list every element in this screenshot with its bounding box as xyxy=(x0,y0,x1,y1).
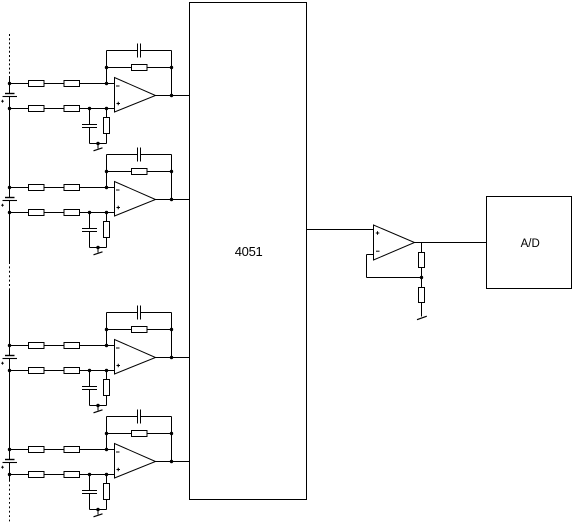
wire xyxy=(107,50,138,52)
wire xyxy=(80,474,115,476)
wire xyxy=(44,370,64,372)
wire xyxy=(44,449,64,451)
wire: mux output to buffer xyxy=(307,229,374,231)
resistor R14 xyxy=(64,106,80,112)
node: U2 inverting input junction xyxy=(105,186,108,189)
resistor R35 (feedback) xyxy=(132,327,148,333)
resistor R61 xyxy=(419,253,425,268)
ground xyxy=(94,514,103,517)
wire: rail into BT3 xyxy=(9,289,11,356)
wire xyxy=(106,51,108,84)
wire xyxy=(80,449,115,451)
wire xyxy=(106,134,108,144)
node: U3 inverting input junction xyxy=(105,344,108,347)
wire xyxy=(90,509,107,511)
wire xyxy=(44,83,64,85)
wire xyxy=(89,371,91,387)
wire xyxy=(171,313,173,358)
wire xyxy=(421,303,423,317)
wire xyxy=(10,83,29,85)
resistor R31 xyxy=(29,343,45,349)
wire xyxy=(107,67,132,69)
node xyxy=(170,66,173,69)
ground xyxy=(94,148,103,151)
wire xyxy=(90,405,107,407)
node xyxy=(88,369,91,372)
wire xyxy=(106,500,108,510)
node: U3 output xyxy=(170,356,173,359)
wire xyxy=(171,51,173,96)
wire: BT3 minus to BT4 plus rail xyxy=(9,359,11,460)
wire xyxy=(147,67,172,69)
op-amp U2 xyxy=(115,182,156,217)
wire xyxy=(90,143,107,145)
op-amp U6 (buffer) xyxy=(374,225,415,260)
resistor R11 xyxy=(29,81,45,87)
wire xyxy=(156,357,190,359)
wire xyxy=(156,199,190,201)
node: U4 inverting input junction xyxy=(105,448,108,451)
wire xyxy=(80,108,115,110)
resistor R42 xyxy=(64,447,80,453)
wire xyxy=(80,345,115,347)
ground xyxy=(94,410,103,413)
mux U5 4051 xyxy=(190,3,307,500)
wire xyxy=(97,406,99,411)
resistor R41 xyxy=(29,447,45,453)
capacitor C32 (filter) xyxy=(82,387,97,390)
capacitor C12 (filter) xyxy=(82,125,97,128)
wire xyxy=(106,109,108,118)
wire xyxy=(89,232,91,248)
wire xyxy=(10,370,29,372)
wire: battery stack mid continuation (dashed) xyxy=(9,262,11,289)
wire xyxy=(89,128,91,144)
svg-text:A/D: A/D xyxy=(521,238,540,250)
wire xyxy=(90,247,107,249)
wire xyxy=(10,474,29,476)
ground xyxy=(417,316,427,320)
ground xyxy=(94,252,103,255)
resistor R45 (feedback) xyxy=(132,431,148,437)
wire xyxy=(107,329,132,331)
capacitor C11 (feedback) xyxy=(138,44,141,58)
wire xyxy=(106,238,108,248)
wire xyxy=(89,109,91,125)
wire xyxy=(97,248,99,253)
svg-text:4051: 4051 xyxy=(235,244,263,259)
wire xyxy=(107,433,132,435)
wire: BT2 minus rail down xyxy=(9,201,11,263)
wire xyxy=(89,494,91,510)
wire xyxy=(107,154,138,156)
wire xyxy=(10,187,29,189)
node xyxy=(105,473,108,476)
node: BT2 - terminal tap xyxy=(8,211,11,214)
wire xyxy=(156,461,190,463)
wire xyxy=(97,510,99,515)
node: U1 inverting input junction xyxy=(105,82,108,85)
node xyxy=(88,473,91,476)
node: BT4 - terminal tap xyxy=(8,473,11,476)
wire xyxy=(141,154,172,156)
battery BT4 xyxy=(1,460,17,469)
wire xyxy=(44,474,64,476)
node xyxy=(88,107,91,110)
op-amp U4 xyxy=(115,444,156,479)
battery BT2 xyxy=(1,198,17,207)
node xyxy=(105,66,108,69)
node: BT4 + terminal tap xyxy=(8,448,11,451)
node: U1 output xyxy=(170,94,173,97)
capacitor C31 (feedback) xyxy=(138,306,141,320)
wire xyxy=(147,171,172,173)
wire xyxy=(421,243,423,253)
wire xyxy=(106,313,108,346)
capacitor C22 (filter) xyxy=(82,229,97,232)
wire xyxy=(147,433,172,435)
wire: BT4 minus rail down xyxy=(9,463,11,481)
resistor R13 xyxy=(29,106,45,112)
wire: buffer output to A/D xyxy=(415,242,487,244)
wire: battery stack bottom continuation (dashed) xyxy=(9,480,11,522)
wire xyxy=(89,213,91,229)
resistor R24 xyxy=(64,210,80,216)
node xyxy=(170,328,173,331)
wire xyxy=(106,417,108,450)
resistor R46 (filter) xyxy=(104,484,110,500)
resistor R62 xyxy=(419,288,425,303)
resistor R22 xyxy=(64,185,80,191)
node: BT2 + terminal tap xyxy=(8,186,11,189)
A/D converter xyxy=(487,197,572,289)
wire xyxy=(44,345,64,347)
wire xyxy=(156,95,190,97)
node xyxy=(88,211,91,214)
resistor R21 xyxy=(29,185,45,191)
wire xyxy=(106,475,108,484)
resistor R34 xyxy=(64,368,80,374)
wire xyxy=(80,370,115,372)
node xyxy=(96,508,99,511)
wire: BT1 minus to BT2 plus rail xyxy=(9,97,11,198)
wire xyxy=(141,50,172,52)
node xyxy=(105,107,108,110)
node: feedback junction xyxy=(420,276,423,279)
wire xyxy=(106,155,108,188)
wire xyxy=(367,277,422,279)
resistor R32 xyxy=(64,343,80,349)
node: BT1 + terminal tap xyxy=(8,82,11,85)
wire xyxy=(80,83,115,85)
wire: rail into BT1 xyxy=(9,76,11,94)
node xyxy=(105,328,108,331)
battery BT3 xyxy=(1,356,17,365)
node xyxy=(105,432,108,435)
battery BT1 xyxy=(1,94,17,103)
wire xyxy=(44,187,64,189)
wire xyxy=(141,416,172,418)
capacitor C21 (feedback) xyxy=(138,148,141,162)
node: BT1 - terminal tap xyxy=(8,107,11,110)
node xyxy=(96,246,99,249)
wire xyxy=(89,390,91,406)
resistor R44 xyxy=(64,472,80,478)
wire xyxy=(10,108,29,110)
wire xyxy=(107,416,138,418)
wire xyxy=(147,329,172,331)
wire xyxy=(44,212,64,214)
wire: battery stack top continuation (dashed) xyxy=(9,34,11,76)
node xyxy=(105,170,108,173)
wire xyxy=(106,396,108,406)
wire: feedback stub xyxy=(367,254,374,256)
wire xyxy=(10,449,29,451)
wire xyxy=(10,345,29,347)
node: BT3 + terminal tap xyxy=(8,344,11,347)
wire xyxy=(10,212,29,214)
resistor R12 xyxy=(64,81,80,87)
wire xyxy=(80,212,115,214)
node: BT3 - terminal tap xyxy=(8,369,11,372)
resistor R33 xyxy=(29,368,45,374)
node xyxy=(96,142,99,145)
wire xyxy=(106,371,108,380)
wire xyxy=(107,171,132,173)
node xyxy=(170,170,173,173)
wire xyxy=(421,268,423,288)
wire xyxy=(106,213,108,222)
capacitor C41 (feedback) xyxy=(138,410,141,424)
resistor R25 (feedback) xyxy=(132,169,148,175)
node: U4 output xyxy=(170,460,173,463)
wire xyxy=(44,108,64,110)
resistor R16 (filter) xyxy=(104,118,110,134)
wire xyxy=(80,187,115,189)
node xyxy=(96,404,99,407)
resistor R23 xyxy=(29,210,45,216)
resistor R26 (filter) xyxy=(104,222,110,238)
capacitor C42 (filter) xyxy=(82,491,97,494)
wire xyxy=(89,475,91,491)
resistor R15 (feedback) xyxy=(132,65,148,71)
wire xyxy=(171,155,173,200)
wire xyxy=(107,312,138,314)
wire xyxy=(141,312,172,314)
node xyxy=(105,211,108,214)
resistor R36 (filter) xyxy=(104,380,110,396)
wire xyxy=(366,255,368,278)
op-amp U1 xyxy=(115,78,156,113)
wire xyxy=(97,144,99,149)
wire xyxy=(171,417,173,462)
node xyxy=(105,369,108,372)
node: U2 output xyxy=(170,198,173,201)
resistor R43 xyxy=(29,472,45,478)
node xyxy=(170,432,173,435)
op-amp U3 xyxy=(115,340,156,375)
